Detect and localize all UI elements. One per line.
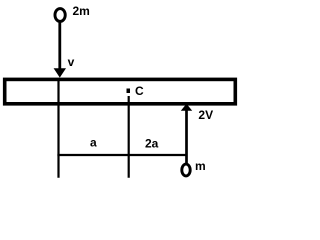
ball 2m (top ring) [55,9,65,22]
svg-text:m: m [195,159,206,173]
arrowhead v (down) [54,68,66,77]
svg-text:2V: 2V [198,108,213,122]
svg-text:v: v [68,55,75,69]
ball m (bottom ring) [182,164,190,176]
svg-text:2a: 2a [145,137,159,151]
wire: velocity arrow 2V shaft [185,110,188,164]
bar (horizontal rod) [5,79,236,103]
dimension line (horizontal) [57,154,187,156]
svg-text:a: a [90,136,97,150]
node line B (vertical reference line under C) [128,96,130,178]
svg-text:C: C [135,84,144,98]
node line A inside bar (redraw over white fill) [57,81,59,102]
wire: velocity arrow v shaft [58,22,61,70]
svg-text:2m: 2m [73,4,90,18]
node line A (vertical reference line under v arrow) [57,78,59,178]
node C dot [127,89,131,94]
arrowhead 2V (up) [181,104,192,111]
